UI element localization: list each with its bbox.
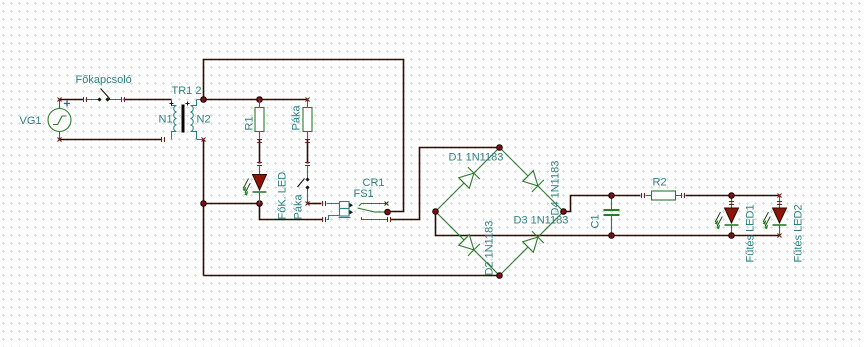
switch Fokapcsolo bbox=[86, 99, 122, 101]
wire switch to TR1 bbox=[124, 99, 172, 101]
ticks R2 left bbox=[642, 193, 645, 198]
wire R2 to LED2 top bbox=[686, 195, 779, 197]
wire Paka resistor mid segment bbox=[307, 140, 309, 164]
diode D4 bbox=[523, 171, 544, 192]
node bridge left bbox=[433, 209, 439, 215]
pin x Paka switch bottom corner bbox=[306, 202, 310, 206]
ticks R1 bottom bbox=[257, 140, 262, 143]
switch Paka terminals bbox=[305, 177, 309, 189]
svg-text:C1: C1 bbox=[590, 214, 602, 228]
node bridge right bbox=[561, 209, 567, 215]
LED FoK triangle bbox=[253, 175, 267, 191]
svg-text:N1: N1 bbox=[159, 114, 173, 126]
ticks Paka switch top bbox=[305, 163, 310, 166]
node FS1 common bbox=[385, 209, 391, 215]
node LED bottom junction bbox=[257, 201, 263, 207]
pin x VG1 bottom bbox=[58, 138, 62, 142]
svg-text:D1 1N1183: D1 1N1183 bbox=[449, 152, 504, 164]
node LED1 bottom bbox=[729, 233, 735, 239]
svg-text:R1: R1 bbox=[244, 116, 256, 130]
wire primary bottom bbox=[60, 139, 162, 141]
svg-text:D4 1N1183: D4 1N1183 bbox=[550, 161, 562, 216]
node bottom left junction bbox=[201, 201, 207, 207]
diode D2 bbox=[459, 235, 480, 256]
ticks LED1 top lead bbox=[729, 202, 734, 205]
svg-text:D3 1N1183: D3 1N1183 bbox=[514, 215, 569, 227]
LED1 triangle bbox=[725, 208, 739, 223]
node bridge top bbox=[497, 145, 503, 151]
pin x LED2 top bbox=[778, 194, 782, 198]
svg-text:N2: N2 bbox=[197, 114, 211, 126]
svg-text:FőK. LED: FőK. LED bbox=[277, 172, 289, 220]
node LED1 top bbox=[729, 193, 735, 199]
plus mark VG1 bbox=[64, 101, 70, 107]
pin x LED2 bottom bbox=[778, 234, 782, 238]
diode D3 bbox=[523, 231, 544, 252]
ticks LED FoK top bbox=[257, 163, 262, 166]
svg-text:Fűtés LED2: Fűtés LED2 bbox=[793, 204, 805, 262]
ticks wire at 121,99 bbox=[122, 97, 125, 102]
svg-text:Főkapcsoló: Főkapcsoló bbox=[76, 74, 132, 86]
relay coil CR1 pins bbox=[350, 203, 354, 215]
ticks LED2 top lead bbox=[777, 202, 782, 205]
wire bridge left node to bottom dc rail bbox=[436, 214, 779, 236]
voltage source VG1 bbox=[48, 100, 71, 140]
wire bridge right node to top dc rail bbox=[564, 196, 641, 212]
bridge edge bottom-right bbox=[500, 212, 564, 276]
pin x FS1 open contact bbox=[385, 202, 389, 206]
ticks FS1 lower contact bbox=[388, 217, 391, 222]
bridge edge bottom-left bbox=[436, 212, 500, 276]
svg-text:TR1 2: TR1 2 bbox=[172, 85, 202, 97]
node C1 top bbox=[609, 193, 615, 199]
relay contact FS1 bbox=[358, 204, 388, 220]
transformer TR1 bbox=[172, 100, 203, 140]
wire primary top VG1 to switch bbox=[60, 99, 84, 101]
ticks relay coil top wire bbox=[323, 201, 326, 206]
node bridge bottom bbox=[497, 273, 503, 279]
switch Fokapcsolo terminals bbox=[97, 97, 109, 101]
LED FoK bbox=[253, 166, 267, 204]
ticks wire at 161,139 bbox=[162, 137, 165, 142]
wire LED junction horizontal bbox=[204, 203, 260, 205]
transformer core bbox=[182, 105, 185, 133]
node R1 top bbox=[257, 97, 263, 103]
svg-text:D2 1N1183: D2 1N1183 bbox=[484, 221, 496, 276]
wire R1 mid segment bbox=[259, 140, 261, 164]
LED Futes LED1 bbox=[725, 196, 739, 236]
LED Futes LED2 bbox=[773, 196, 787, 236]
wire TR1 junction to R1 junction bbox=[204, 99, 260, 101]
bridge edge top-right bbox=[500, 148, 564, 212]
LED1 arrows bbox=[715, 212, 722, 227]
ticks wire at 83,99 bbox=[84, 97, 87, 102]
wire LED junction down to relay coil bbox=[260, 204, 323, 220]
wire bottom rail to bridge bottom node bbox=[204, 275, 498, 277]
node C1 bottom bbox=[609, 233, 615, 239]
plus mark TR1 right bbox=[186, 102, 190, 106]
switch Paka blade bbox=[298, 179, 305, 188]
diode D1 bbox=[459, 167, 480, 188]
svg-text:Páka: Páka bbox=[291, 105, 303, 131]
ticks relay coil bottom wire bbox=[323, 217, 326, 222]
ticks R2 right bbox=[682, 193, 685, 198]
switch Paka bbox=[307, 166, 309, 204]
LED2 arrows bbox=[763, 212, 770, 227]
LED FoK arrows bbox=[243, 179, 250, 194]
pin x Paka resistor top bbox=[306, 98, 310, 102]
plus mark TR1 left bbox=[170, 102, 174, 106]
resistor Paka bbox=[303, 100, 312, 140]
relay coil CR1 bbox=[327, 202, 351, 220]
ticks Paka resistor bottom bbox=[305, 140, 310, 143]
pin x TR1 bottom right bbox=[202, 138, 206, 142]
node TR1 secondary top bbox=[201, 97, 207, 103]
resistor R1 bbox=[255, 100, 264, 140]
LED2 triangle bbox=[773, 208, 787, 223]
capacitor C1 bbox=[604, 196, 620, 236]
switch Fokapcsolo blade bbox=[101, 89, 111, 100]
svg-text:FS1: FS1 bbox=[354, 188, 374, 200]
resistor R2 bbox=[646, 191, 682, 200]
wire R1 junction to Paka resistor bbox=[260, 99, 307, 101]
wire TR1 bottom down to bottom rail bbox=[203, 140, 205, 276]
wire FS1 lower contact to bridge top node bbox=[391, 148, 498, 220]
svg-text:R2: R2 bbox=[653, 177, 667, 189]
svg-text:Fűtés LED1: Fűtés LED1 bbox=[745, 204, 757, 262]
wire Paka switch to relay coil bbox=[308, 203, 322, 205]
pin x VG1 top bbox=[58, 98, 62, 102]
svg-text:VG1: VG1 bbox=[20, 115, 42, 127]
svg-text:Páka: Páka bbox=[293, 194, 305, 220]
wire TR1 junction up over to FS1 bbox=[204, 60, 404, 212]
bridge edge top-left bbox=[436, 148, 500, 212]
